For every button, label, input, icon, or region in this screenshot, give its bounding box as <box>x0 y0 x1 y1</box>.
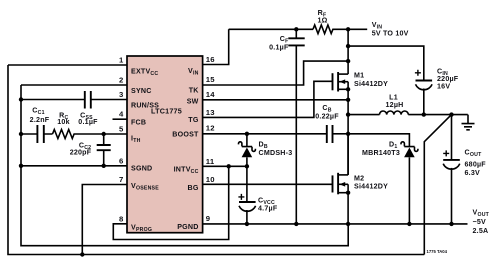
svg-text:680µF: 680µF <box>465 161 487 169</box>
svg-text:CMDSH-3: CMDSH-3 <box>259 149 293 157</box>
node junction DB top <box>245 132 249 136</box>
node junction M2 source rail <box>346 222 350 226</box>
svg-text:9: 9 <box>206 214 211 223</box>
svg-text:Si4412DY: Si4412DY <box>354 80 388 88</box>
svg-text:M1: M1 <box>354 72 364 80</box>
svg-text:RUN/SS: RUN/SS <box>131 102 159 110</box>
node junction M2 source <box>346 191 350 195</box>
svg-text:TG: TG <box>188 116 199 124</box>
svg-text:BOOST: BOOST <box>172 131 199 139</box>
node junction D1 bottom <box>407 222 411 226</box>
svg-text:2.2nF: 2.2nF <box>30 116 50 124</box>
svg-text:7: 7 <box>119 175 124 184</box>
svg-text:TK: TK <box>189 87 200 95</box>
svg-text:12: 12 <box>206 123 215 132</box>
resistor RC <box>53 112 104 139</box>
svg-text:10k: 10k <box>57 118 70 126</box>
svg-text:SW: SW <box>187 98 199 106</box>
wire TG pin13 to M1 gate <box>203 81 333 117</box>
wire SW pin14 row <box>203 99 349 101</box>
node junction COUT bottom <box>449 222 453 226</box>
node junction SGND rail <box>19 164 23 168</box>
svg-text:4.7µF: 4.7µF <box>258 205 278 213</box>
svg-text:14: 14 <box>206 90 215 99</box>
wire EXTVCC pin1 to left rail <box>8 64 127 66</box>
svg-text:2.5A: 2.5A <box>473 227 489 235</box>
svg-text:2: 2 <box>119 76 124 85</box>
node junction DB anode <box>245 164 249 168</box>
node junction COUT top <box>449 112 453 116</box>
svg-text:5: 5 <box>119 125 124 134</box>
svg-text:0.22µF: 0.22µF <box>315 113 339 121</box>
svg-text:M2: M2 <box>354 175 364 183</box>
svg-text:FCB: FCB <box>131 119 146 127</box>
node junction SW <box>346 98 350 102</box>
node VIN <box>346 27 350 31</box>
capacitor CSS <box>21 91 98 126</box>
wire SYNC pin2 to signal-ground rail <box>21 84 127 86</box>
inductor L1 <box>348 94 468 115</box>
wire signal ground rail x21 <box>21 85 348 246</box>
wire BG pin10 to M2 gate <box>203 183 333 185</box>
svg-text:−5V: −5V <box>473 218 487 226</box>
wire SW vertical <box>347 89 349 175</box>
svg-text:PGND: PGND <box>177 223 198 231</box>
wire BOOST pin12 row <box>203 133 327 135</box>
node junction TK-VIN <box>346 59 350 63</box>
svg-text:0.1µF: 0.1µF <box>78 118 98 126</box>
op-amp U1 LTC1775 IC body <box>127 56 203 233</box>
wire M2 source to VOUT rail <box>347 193 349 224</box>
svg-text:1: 1 <box>119 56 124 65</box>
node junction SW-CB-D1 <box>346 132 350 136</box>
svg-text:13: 13 <box>206 108 215 117</box>
wire D1 branch from SW <box>348 134 409 147</box>
svg-text:SGND: SGND <box>131 165 152 173</box>
node junction RUN/SS rail <box>19 97 23 101</box>
svg-text:1775 TA04: 1775 TA04 <box>427 249 448 254</box>
wire VOUT rail PGND pin9 <box>203 223 468 225</box>
svg-text:10: 10 <box>206 175 215 184</box>
wire SGND pin6 row <box>21 165 127 167</box>
diode DB CMDSH-3 <box>239 134 293 167</box>
transistor M2 Si4412DY <box>333 173 389 195</box>
wire SW to M2 drain <box>347 134 349 175</box>
resistor RF <box>313 9 367 34</box>
node junction CIN branch <box>346 44 350 48</box>
label VOUT <box>473 209 490 236</box>
wire left outer ground rail (EXTVCC net) <box>8 65 424 255</box>
node junction ITH rail <box>19 132 23 136</box>
wire top VIN rail <box>229 28 313 30</box>
wire VIN pin16 riser <box>203 29 229 64</box>
ground <box>462 115 475 130</box>
svg-text:6.3V: 6.3V <box>465 169 481 177</box>
wire FCB stub <box>113 118 128 120</box>
svg-text:15: 15 <box>206 75 215 84</box>
svg-text:8: 8 <box>119 214 124 223</box>
svg-text:12µH: 12µH <box>386 101 404 109</box>
capacitor COUT <box>443 115 486 224</box>
svg-text:11: 11 <box>206 157 215 166</box>
node junction INTVCC loop <box>227 164 231 168</box>
wire diagonal ground to bottom riser <box>424 115 451 255</box>
node junction CC2 bottom <box>102 164 106 168</box>
capacitor CIN <box>415 68 459 115</box>
svg-text:3: 3 <box>119 90 124 99</box>
wire CIN branch <box>348 46 424 80</box>
svg-text:1Ω: 1Ω <box>317 17 327 25</box>
svg-text:Si4412DY: Si4412DY <box>354 183 388 191</box>
wire RUN/SS pin3 to CSS <box>91 99 127 101</box>
wire VOSENSE pin7 to outer rail <box>82 185 127 255</box>
label VIN supply <box>372 21 409 38</box>
node junction CF top <box>294 27 298 31</box>
node junction CVCC bottom <box>245 222 249 226</box>
node junction CIN bottom <box>422 112 426 116</box>
transistor M1 Si4412DY <box>333 72 389 92</box>
wire INTVCC pin11 row <box>203 165 247 167</box>
svg-text:16V: 16V <box>437 83 450 91</box>
svg-text:6: 6 <box>119 156 124 165</box>
wire TK pin15 to VIN node <box>203 61 349 85</box>
node junction VOSENSE outer rail <box>80 252 84 256</box>
wire VIN vertical <box>347 29 349 74</box>
wire VPROG pin8 loop to INTVCC <box>113 166 228 239</box>
capacitor CC2 <box>70 134 111 166</box>
svg-text:5V TO 10V: 5V TO 10V <box>372 30 409 38</box>
svg-text:MBR140T3: MBR140T3 <box>362 149 400 157</box>
svg-text:4: 4 <box>119 110 124 119</box>
capacitor CC1 <box>21 107 53 144</box>
wire ITH pin5 row <box>104 133 127 135</box>
node junction CC2 top <box>102 132 106 136</box>
node junction CF bottom <box>294 222 298 226</box>
node junction M1 source <box>346 87 350 91</box>
svg-text:220pF: 220pF <box>70 149 92 157</box>
diode D1 MBR140T3 <box>362 141 418 224</box>
node junction L1 tap <box>346 112 350 116</box>
svg-text:0.1µF: 0.1µF <box>269 44 289 52</box>
svg-text:BG: BG <box>188 184 199 192</box>
capacitor CF <box>269 29 305 224</box>
capacitor CB <box>315 104 348 143</box>
svg-text:16: 16 <box>206 55 215 64</box>
svg-text:SYNC: SYNC <box>131 87 152 95</box>
capacitor CVCC <box>238 166 277 224</box>
